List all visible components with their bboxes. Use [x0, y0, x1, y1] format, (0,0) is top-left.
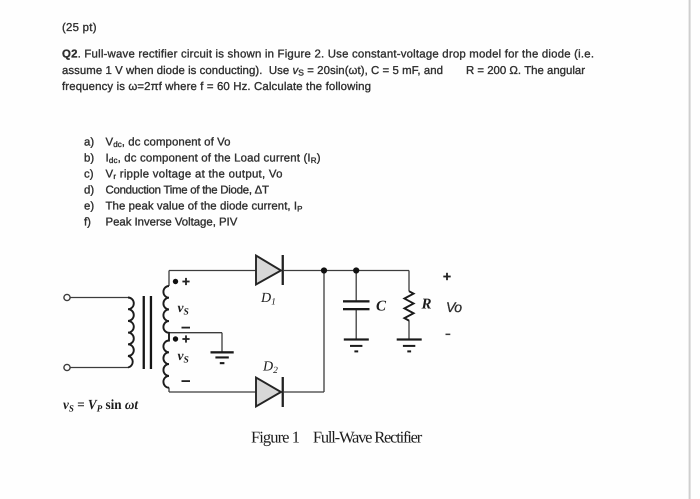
svg-text:Vo: Vo: [446, 299, 462, 315]
svg-text:assume 1 V when diode is condu: assume 1 V when diode is conducting). Us…: [62, 65, 443, 78]
svg-text:Q2. Full-wave rectifier circui: Q2. Full-wave rectifier circuit is shown…: [62, 49, 594, 61]
svg-text:vS = VP sin ωt: vS = VP sin ωt: [63, 398, 139, 415]
svg-text:d): d): [84, 185, 94, 197]
svg-text:c): c): [84, 168, 94, 180]
svg-text:Conduction Time of the Diode,: Conduction Time of the Diode, ΔT: [106, 185, 270, 197]
svg-text:The peak value of the diode cu: The peak value of the diode current, IP: [106, 201, 303, 214]
svg-text:(25 pt): (25 pt): [62, 22, 97, 34]
svg-text:D1: D1: [260, 291, 276, 308]
svg-text:Full-Wave Rectifier: Full-Wave Rectifier: [313, 428, 423, 447]
svg-text:R = 200 Ω. The angular: R = 200 Ω. The angular: [466, 65, 585, 77]
svg-text:Vr ripple voltage at the outpu: Vr ripple voltage at the output, Vo: [106, 168, 283, 181]
svg-text:b): b): [84, 152, 94, 164]
svg-text:C: C: [376, 299, 387, 315]
svg-text:R: R: [421, 297, 432, 313]
svg-text:a): a): [84, 136, 94, 148]
svg-text:Idc, dc component of the Load: Idc, dc component of the Load current (I…: [106, 152, 321, 165]
svg-text:Vdc, dc component of Vo: Vdc, dc component of Vo: [106, 136, 231, 149]
svg-text:D2: D2: [262, 360, 278, 377]
svg-text:Figure 1: Figure 1: [251, 428, 300, 447]
svg-text:vS: vS: [178, 348, 189, 366]
svg-text:frequency is ω=2πf where f = 6: frequency is ω=2πf where f = 60 Hz. Calc…: [62, 81, 371, 93]
svg-text:vS: vS: [178, 300, 189, 318]
svg-text:f): f): [84, 216, 91, 228]
svg-text:Peak Inverse Voltage, PIV: Peak Inverse Voltage, PIV: [106, 216, 238, 228]
svg-text:e): e): [84, 201, 94, 213]
